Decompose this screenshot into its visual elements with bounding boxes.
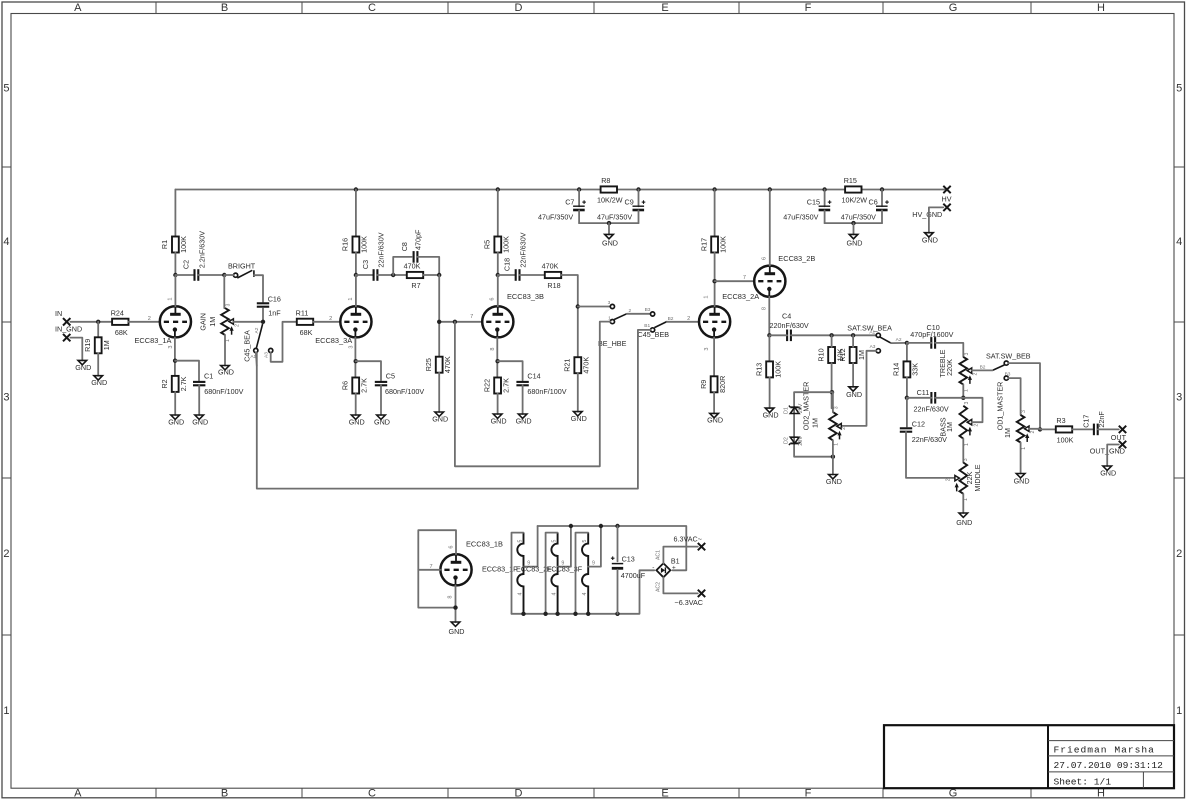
svg-text:GND: GND — [763, 410, 779, 419]
svg-text:R24: R24 — [111, 309, 124, 318]
bridge rectifier B1 — [652, 550, 679, 592]
svg-text:47uF/350V: 47uF/350V — [783, 212, 818, 221]
resistor R8 10K/2W — [597, 176, 623, 205]
wire R21 to ground — [577, 373, 579, 411]
heater filament ECC83_2F — [516, 533, 564, 614]
capacitor C6 47uF/350V — [841, 190, 889, 224]
svg-text:2.2nF/630V: 2.2nF/630V — [197, 231, 206, 268]
terminal ~6.3VAC — [675, 590, 706, 608]
svg-text:R13: R13 — [754, 363, 763, 376]
wire R1 plate — [174, 190, 176, 237]
resistor R14 33K — [892, 361, 920, 377]
title text Friedman Marsha — [1054, 745, 1155, 756]
svg-text:4: 4 — [582, 592, 588, 595]
ground OUT_GND — [1100, 466, 1116, 478]
svg-text:GND: GND — [192, 417, 208, 426]
pin labels SAT.SW_BEA — [869, 329, 901, 350]
svg-text:G: G — [949, 2, 958, 14]
svg-text:+: + — [672, 564, 676, 571]
potentiometer OD2_MASTER 1M — [802, 382, 842, 441]
svg-text:8: 8 — [490, 347, 496, 350]
wire ECC83_3F frame — [576, 533, 589, 614]
svg-text:4: 4 — [1176, 236, 1182, 248]
svg-text:C: C — [368, 2, 376, 14]
zener diode D1 20V — [783, 403, 804, 414]
ground R21 — [571, 412, 587, 423]
resistor R24 68K — [111, 309, 129, 338]
wire C14 to ground — [522, 385, 524, 414]
terminal 6.3VAC~ — [674, 535, 706, 551]
svg-text:GND: GND — [1014, 477, 1030, 486]
wire ECC83_2F tap — [558, 526, 571, 567]
resistor R10 10K — [816, 347, 844, 363]
svg-text:10K/2W: 10K/2W — [842, 196, 868, 205]
svg-text:3: 3 — [964, 352, 970, 355]
svg-text:1: 1 — [1021, 447, 1027, 450]
svg-text:4700uF: 4700uF — [621, 571, 646, 580]
svg-text:22nF: 22nF — [1097, 411, 1106, 428]
svg-text:27.07.2010 09:31:12: 27.07.2010 09:31:12 — [1054, 760, 1164, 771]
wire U3B grid — [437, 314, 482, 324]
terminal IN_GND — [55, 325, 82, 361]
wire BE_HBE blade to B3 — [627, 313, 651, 315]
wire U2A cathode — [713, 338, 715, 377]
wire R12 to ground — [852, 363, 854, 387]
wire C11 wires — [907, 397, 963, 399]
svg-text:2: 2 — [148, 316, 151, 322]
wire C12 to MIDDLE wiper — [906, 432, 957, 478]
capacitor C12 22nF/630V — [900, 419, 947, 444]
switch SAT.SW_BEB — [986, 351, 1031, 380]
svg-text:GND: GND — [956, 518, 972, 527]
svg-text:AC2: AC2 — [655, 582, 661, 592]
svg-text:C1: C1 — [204, 371, 213, 380]
capacitor C7 47uF/350V — [538, 190, 586, 224]
svg-text:22nF/630V: 22nF/630V — [376, 232, 385, 267]
title date 27.07.2010 09:31:12 — [1054, 760, 1164, 771]
svg-text:IN: IN — [55, 309, 62, 318]
wire cathode to C1 — [175, 361, 199, 381]
wire GAIN wiper — [233, 320, 265, 324]
resistor R18 470K — [542, 262, 562, 291]
svg-text:8: 8 — [762, 307, 768, 310]
wire B2 to R3 junction — [1008, 363, 1042, 431]
wire B3 to OD1 — [1008, 378, 1020, 415]
svg-text:B3: B3 — [1005, 371, 1011, 377]
wire R13 to ground — [769, 377, 771, 408]
pin numbers U3A — [348, 297, 354, 348]
ground MIDDLE — [956, 513, 972, 527]
svg-text:C6: C6 — [869, 198, 878, 207]
svg-text:ECC83_3F: ECC83_3F — [547, 565, 583, 574]
resistor R6 2.7K — [340, 378, 368, 394]
svg-text:GND: GND — [846, 390, 862, 399]
svg-text:GND: GND — [1100, 469, 1116, 478]
wire BASS bottom to MIDDLE — [962, 439, 964, 463]
svg-text:C: C — [368, 787, 376, 799]
svg-text:A: A — [74, 787, 82, 799]
svg-text:R14: R14 — [892, 363, 901, 376]
svg-text:GND: GND — [374, 417, 390, 426]
resistor R12 1M — [838, 347, 866, 363]
svg-text:100K: 100K — [718, 236, 727, 253]
svg-text:3: 3 — [1176, 392, 1182, 404]
svg-text:22nF/630V: 22nF/630V — [914, 405, 949, 414]
wire R10 to OD2 junction — [830, 363, 834, 408]
wire C17 to OUT — [1098, 428, 1119, 430]
triode U3A ECC83_3A — [340, 306, 371, 337]
svg-text:47uF/350V: 47uF/350V — [538, 212, 573, 221]
wire R12 top — [852, 335, 854, 347]
svg-text:1nF: 1nF — [268, 308, 281, 317]
wire C4 row to R13 — [768, 335, 770, 361]
pin labels C45_BEB — [644, 307, 673, 329]
svg-text:A3: A3 — [264, 352, 270, 358]
pin numbers U2A — [703, 295, 710, 350]
svg-text:MIDDLE: MIDDLE — [973, 464, 982, 491]
wire R18 to corner down — [561, 275, 580, 357]
capacitor C11 22nF/630V — [914, 388, 949, 413]
svg-text:C12: C12 — [912, 419, 925, 428]
terminal HV — [942, 186, 952, 204]
label ECC83_2B — [778, 254, 815, 263]
svg-text:100K: 100K — [360, 236, 369, 253]
svg-text:GND: GND — [491, 416, 507, 425]
svg-text:GND: GND — [75, 363, 91, 372]
wire R25 to ground — [438, 373, 440, 412]
svg-text:470K: 470K — [542, 262, 559, 271]
wire R3 to C17 — [1072, 428, 1094, 430]
svg-text:C4: C4 — [782, 312, 791, 321]
svg-text:7: 7 — [470, 314, 473, 320]
wire OD2 top — [832, 392, 834, 412]
wire R16 to C3 junction — [354, 253, 374, 307]
svg-text:R5: R5 — [483, 240, 492, 249]
svg-text:AC1: AC1 — [655, 550, 661, 560]
svg-text:47uF/350V: 47uF/350V — [841, 212, 876, 221]
resistor R22 2.7K — [482, 378, 510, 394]
svg-text:33K: 33K — [911, 363, 920, 376]
potentiometer TREBLE 220K — [938, 349, 972, 384]
svg-text:D: D — [515, 787, 523, 799]
svg-text:5: 5 — [518, 539, 524, 542]
svg-text:OUT: OUT — [1111, 433, 1127, 442]
svg-text:2.7K: 2.7K — [179, 376, 188, 391]
svg-text:220K: 220K — [945, 359, 954, 376]
svg-text:R15: R15 — [844, 176, 857, 185]
wire ECC83_1F frame — [512, 533, 524, 614]
wire junction to GAIN — [223, 275, 225, 308]
zener diode D2 20V — [783, 436, 804, 446]
wire C5 to ground — [380, 385, 382, 415]
svg-text:ECC83_3B: ECC83_3B — [507, 292, 544, 301]
svg-text:820R: 820R — [718, 376, 727, 393]
svg-text:4: 4 — [3, 236, 9, 248]
svg-text:GND: GND — [826, 477, 842, 486]
wire R14 to C11 junction — [905, 377, 909, 400]
svg-text:10K/2W: 10K/2W — [597, 196, 623, 205]
svg-text:680nF/100V: 680nF/100V — [527, 387, 566, 396]
svg-text:68K: 68K — [115, 328, 128, 337]
ground below C15 C6 — [825, 221, 882, 247]
resistor R3 100K — [1056, 416, 1074, 445]
svg-text:D2: D2 — [783, 437, 789, 444]
svg-text:3: 3 — [3, 392, 9, 404]
wire R1 to C2 junction — [173, 253, 194, 307]
svg-text:1M: 1M — [857, 350, 866, 360]
svg-text:5: 5 — [582, 539, 588, 542]
svg-text:A3: A3 — [870, 344, 876, 350]
svg-text:5: 5 — [552, 539, 558, 542]
svg-text:7: 7 — [743, 275, 746, 281]
wire A2 to C10 junction — [891, 341, 909, 345]
svg-text:R18: R18 — [547, 281, 560, 290]
wire junction to R19 — [97, 322, 99, 338]
svg-text:2: 2 — [972, 372, 978, 375]
wire B1 loop to A1 — [257, 330, 651, 489]
resistor R11 68K — [296, 309, 314, 338]
svg-text:HV_GND: HV_GND — [912, 210, 942, 219]
svg-text:1: 1 — [703, 295, 709, 298]
svg-text:R22: R22 — [482, 379, 491, 392]
capacitor C10 470pF/1600V — [910, 323, 953, 349]
svg-text:C13: C13 — [622, 554, 635, 563]
resistor R19 1M — [83, 337, 111, 353]
svg-text:GND: GND — [516, 416, 532, 425]
svg-text:2.7K: 2.7K — [501, 378, 510, 393]
svg-text:-: - — [652, 564, 654, 571]
svg-text:Friedman Marsha: Friedman Marsha — [1054, 745, 1155, 756]
wire R9 to ground — [713, 392, 715, 414]
svg-text:R19: R19 — [83, 339, 92, 352]
svg-text:1M: 1M — [945, 422, 954, 432]
wire R2 to ground — [174, 392, 176, 415]
svg-text:A: A — [74, 2, 82, 14]
potentiometer MIDDLE 22K — [955, 463, 983, 494]
svg-text:C14: C14 — [527, 371, 540, 380]
pin numbers U1A — [168, 297, 174, 348]
potentiometer GAIN 1M — [198, 308, 233, 335]
wire ECC83_2F frame — [546, 533, 558, 614]
svg-text:GND: GND — [922, 235, 938, 244]
pin numbers TREBLE — [963, 352, 978, 392]
ground OD1 — [1014, 474, 1030, 486]
svg-text:IN_GND: IN_GND — [55, 325, 82, 334]
svg-text:6.3VAC~: 6.3VAC~ — [674, 535, 702, 544]
ground R6 — [349, 415, 365, 426]
pin labels SAT.SW_BEB — [980, 365, 1011, 378]
svg-text:2.7K: 2.7K — [360, 378, 369, 393]
svg-text:470pF/1600V: 470pF/1600V — [910, 330, 953, 339]
svg-text:3: 3 — [226, 303, 232, 306]
ground C14 — [516, 414, 532, 425]
wire OD1 wiper to junction — [1029, 428, 1040, 430]
label ECC83_2A — [722, 292, 759, 301]
wire A3 to R11 — [271, 322, 297, 362]
svg-text:47uF/350V: 47uF/350V — [597, 212, 632, 221]
svg-text:100K: 100K — [179, 236, 188, 253]
pin numbers U1B — [429, 545, 454, 598]
svg-text:GND: GND — [602, 238, 618, 247]
triode U1A ECC83_1A — [160, 306, 191, 337]
wire R16 plate — [355, 190, 357, 237]
label ECC83_1B — [466, 540, 503, 549]
wire heater top bus — [538, 524, 687, 571]
svg-text:3: 3 — [964, 401, 970, 404]
svg-text:E: E — [661, 787, 668, 799]
svg-text:A1: A1 — [869, 329, 875, 335]
svg-text:3: 3 — [963, 458, 969, 461]
heater filament ECC83_1F — [482, 533, 530, 614]
svg-text:1M: 1M — [810, 418, 819, 428]
svg-text:2: 2 — [946, 478, 952, 481]
switch C45_BEA — [243, 324, 273, 362]
resistor R9 820R — [699, 376, 727, 393]
capacitor C14 680nF/100V — [516, 371, 566, 396]
switch SAT.SW_BEA — [847, 324, 892, 353]
switch BRIGHT — [228, 262, 256, 278]
svg-text:8: 8 — [448, 595, 454, 598]
svg-text:C8: C8 — [400, 242, 409, 251]
wire U3B cathode — [495, 338, 499, 378]
ground IN_GND — [75, 360, 91, 371]
svg-text:100K: 100K — [502, 236, 511, 253]
wire C13 top — [617, 526, 619, 561]
title Sheet: 1/1 — [1054, 776, 1112, 787]
wire U2B cathode to C4 — [767, 297, 771, 338]
svg-text:C5: C5 — [386, 371, 395, 380]
capacitor C1 680nF/100V — [193, 371, 244, 396]
resistor R25 470K — [424, 356, 452, 373]
wire R6 to ground — [355, 394, 357, 416]
wire junction to R3 — [1040, 428, 1056, 430]
wire R17 to U2A and U2B — [712, 253, 754, 307]
svg-text:C17: C17 — [1081, 415, 1090, 428]
svg-text:4: 4 — [552, 592, 558, 595]
wire diode loop — [794, 392, 835, 459]
svg-text:2: 2 — [3, 548, 9, 560]
capacitor C5 680nF/100V — [375, 371, 425, 396]
svg-text:GND: GND — [91, 378, 107, 387]
ground R9 — [707, 413, 723, 424]
svg-text:GND: GND — [847, 238, 863, 247]
svg-text:1: 1 — [168, 297, 174, 300]
wire BE_HBE pin1 loop — [455, 322, 610, 467]
capacitor C3 22nF/630V — [361, 232, 385, 281]
svg-text:R10: R10 — [816, 348, 825, 361]
svg-text:1M: 1M — [102, 340, 111, 350]
svg-text:1: 1 — [964, 443, 970, 446]
capacitor C16 1nF — [257, 294, 281, 317]
svg-text:3: 3 — [608, 300, 611, 306]
resistor R5 100K — [483, 236, 511, 253]
svg-text:4: 4 — [518, 592, 524, 595]
pin labels C45_BEA — [250, 327, 269, 360]
capacitor C4 220nF/630V — [770, 312, 809, 342]
svg-text:ECC83_2A: ECC83_2A — [722, 292, 759, 301]
svg-text:470K: 470K — [443, 356, 452, 373]
resistor R2 2.7K — [160, 376, 188, 392]
svg-text:3: 3 — [349, 345, 355, 348]
svg-text:C18: C18 — [503, 258, 512, 271]
svg-text:1: 1 — [1176, 705, 1182, 717]
svg-text:2: 2 — [329, 316, 332, 322]
capacitor C13 4700uF — [611, 554, 646, 580]
wire B1 AC1 to 6.3VAC — [663, 547, 697, 564]
ground OD2 — [826, 475, 842, 487]
svg-text:20V: 20V — [798, 403, 804, 413]
svg-text:C9: C9 — [625, 198, 634, 207]
svg-text:GND: GND — [707, 416, 723, 425]
svg-text:470K: 470K — [582, 357, 591, 374]
wire TREBLE bottom — [961, 384, 965, 400]
pin numbers BE_HBE — [608, 300, 632, 322]
wire C2 to BRIGHT junction — [198, 273, 226, 277]
wire R22 to ground — [497, 394, 499, 415]
wire B1 AC2 to -6.3VAC — [663, 577, 697, 593]
ground C1 — [192, 415, 208, 426]
svg-text:1: 1 — [348, 297, 354, 300]
wire BEB blade to TREBLE wiper — [972, 369, 993, 371]
wire OD2 bottom — [832, 440, 834, 474]
wire U2B plate to rail — [769, 190, 771, 266]
svg-text:2: 2 — [1030, 430, 1036, 433]
svg-text:220nF/630V: 220nF/630V — [770, 321, 809, 330]
svg-text:C2: C2 — [181, 260, 190, 269]
resistor R15 10K/2W — [842, 176, 868, 205]
wire A1 from C45_BEA — [255, 353, 258, 366]
svg-text:R16: R16 — [341, 238, 350, 251]
svg-text:SAT.SW_BEB: SAT.SW_BEB — [986, 351, 1031, 360]
wire R11 to U3A grid — [313, 316, 340, 322]
svg-text:1M: 1M — [208, 317, 217, 327]
heater filament ECC83_3F — [547, 533, 595, 614]
svg-text:680nF/100V: 680nF/100V — [385, 387, 424, 396]
resistor R16 100K — [341, 236, 369, 253]
svg-text:B: B — [221, 787, 228, 799]
svg-text:1: 1 — [963, 389, 969, 392]
svg-text:R25: R25 — [424, 358, 433, 371]
svg-text:2: 2 — [841, 427, 847, 430]
wire U1B box — [418, 530, 457, 622]
label ECC83_3A — [315, 336, 352, 345]
ground R12 — [846, 387, 862, 399]
wire U3A cathode — [354, 338, 358, 378]
wire BRIGHT to C16 — [224, 275, 263, 302]
wire up to C8 — [393, 257, 411, 275]
svg-text:Sheet: 1/1: Sheet: 1/1 — [1054, 776, 1112, 787]
pin numbers MIDDLE — [946, 458, 969, 501]
resistor R13 100K — [754, 361, 782, 378]
capacitor C8 470pF — [400, 229, 423, 263]
svg-text:E: E — [661, 2, 668, 14]
switch C45_BEB — [638, 312, 670, 339]
svg-text:1: 1 — [225, 339, 231, 342]
svg-text:F: F — [805, 787, 812, 799]
pin numbers U3B — [490, 297, 497, 350]
terminal OUT — [1111, 426, 1127, 442]
wire R24 to tube grid — [129, 316, 160, 322]
svg-text:3: 3 — [834, 406, 840, 409]
triode U1B ECC83_1B — [440, 554, 471, 585]
wire BASS wiper loop — [963, 398, 982, 422]
wire R5 plate — [497, 190, 499, 237]
triode U3B ECC83_3B — [482, 306, 513, 337]
svg-text:OD1_MASTER: OD1_MASTER — [995, 382, 1004, 431]
ground U1B — [449, 622, 465, 636]
svg-text:2: 2 — [234, 324, 240, 327]
wire ECC83_3F tap — [588, 526, 601, 567]
